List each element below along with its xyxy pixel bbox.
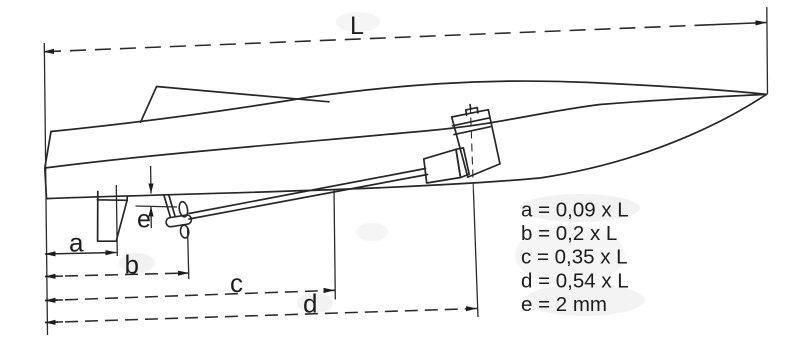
svg-text:e = 2 mm: e = 2 mm <box>521 293 607 316</box>
svg-text:d = 0,54 x L: d = 0,54 x L <box>521 269 629 292</box>
svg-text:d: d <box>303 289 317 319</box>
svg-text:c: c <box>230 268 243 298</box>
svg-text:e: e <box>137 206 151 234</box>
svg-text:a = 0,09 x L: a = 0,09 x L <box>521 199 629 222</box>
svg-text:b: b <box>125 250 139 280</box>
svg-text:L: L <box>350 12 364 40</box>
svg-text:a: a <box>69 228 84 258</box>
svg-text:b = 0,2 x L: b = 0,2 x L <box>521 222 617 245</box>
svg-text:c = 0,35 x L: c = 0,35 x L <box>521 246 628 269</box>
